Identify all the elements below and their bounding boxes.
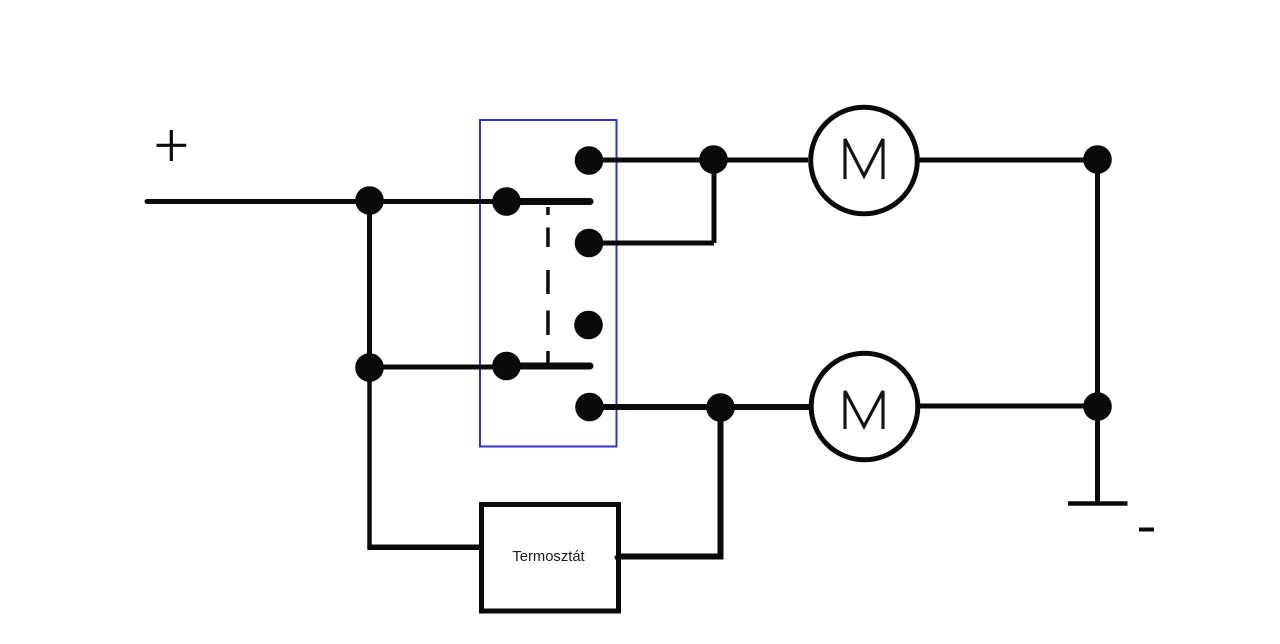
svg-text:Termosztát: Termosztát [512, 549, 584, 565]
